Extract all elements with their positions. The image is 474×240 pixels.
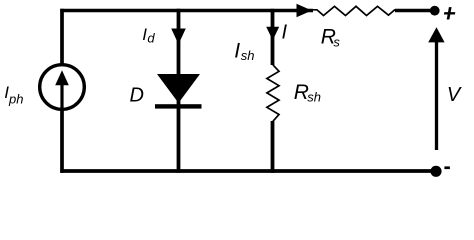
resistor Rs <box>311 6 400 15</box>
arrow V voltage <box>428 27 444 150</box>
label plus <box>444 7 455 19</box>
diode D <box>155 74 202 109</box>
svg-text:D: D <box>130 85 144 107</box>
wire bottom bus <box>60 169 436 173</box>
label Id <box>142 25 155 45</box>
arrow I output current <box>297 4 312 17</box>
resistor Rsh <box>267 65 279 122</box>
arrow Id current <box>171 29 186 45</box>
svg-text:I: I <box>234 40 240 63</box>
svg-text:sh: sh <box>241 48 255 63</box>
wire diode branch <box>177 9 181 173</box>
node terminal minus dot <box>430 166 441 177</box>
wire shunt branch lower <box>271 121 275 173</box>
svg-text:V: V <box>447 84 462 106</box>
wire left branch upper <box>60 9 64 66</box>
svg-text:I: I <box>282 22 288 44</box>
wire top bus <box>60 9 313 13</box>
wire shunt branch upper <box>271 9 275 65</box>
wire top-right segment after Rs <box>395 9 431 13</box>
label Rs <box>321 26 341 50</box>
label Ish <box>234 40 254 63</box>
svg-text:s: s <box>333 35 340 50</box>
label Iph <box>4 83 23 107</box>
label minus <box>444 166 450 169</box>
svg-text:d: d <box>147 30 155 45</box>
current source U Iph <box>40 65 85 110</box>
svg-text:ph: ph <box>8 91 23 106</box>
wire left branch lower <box>60 109 64 173</box>
node terminal plus dot <box>430 6 440 16</box>
arrow Ish current <box>266 27 279 40</box>
label Rsh <box>294 81 321 105</box>
svg-text:sh: sh <box>307 89 321 104</box>
